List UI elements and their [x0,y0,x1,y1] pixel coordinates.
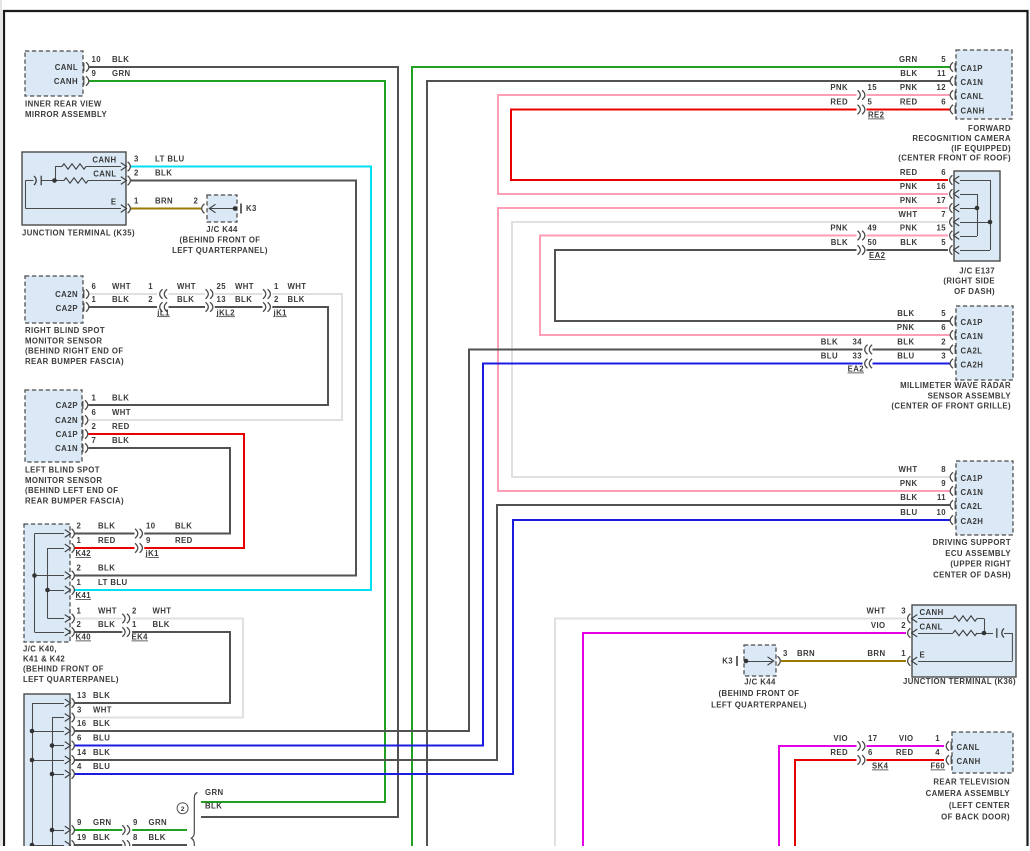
svg-text:15: 15 [937,224,947,233]
svg-text:REAR TELEVISION: REAR TELEVISION [933,778,1010,787]
svg-text:1: 1 [274,282,279,291]
svg-text:BLK: BLK [177,295,194,304]
svg-text:RED: RED [900,98,918,107]
svg-text:RIGHT BLIND SPOT: RIGHT BLIND SPOT [25,326,105,335]
svg-text:(UPPER RIGHT: (UPPER RIGHT [950,560,1011,569]
svg-text:1: 1 [92,295,97,304]
svg-text:BLU: BLU [821,352,838,361]
svg-text:CA2H: CA2H [961,517,984,526]
svg-text:GRN: GRN [93,818,112,827]
svg-text:14: 14 [77,748,87,757]
svg-text:9: 9 [941,479,946,488]
svg-text:1: 1 [148,282,153,291]
svg-text:17: 17 [868,734,877,743]
svg-text:BLK: BLK [112,436,129,445]
svg-text:WHT: WHT [177,282,196,291]
svg-text:E: E [920,651,926,660]
svg-text:3: 3 [77,706,82,715]
svg-text:SENSOR ASSEMBLY: SENSOR ASSEMBLY [928,391,1012,400]
svg-text:2: 2 [77,522,82,531]
svg-text:BLU: BLU [93,762,110,771]
svg-text:GRN: GRN [112,69,131,78]
svg-text:RED: RED [98,536,116,545]
svg-text:8: 8 [941,465,946,474]
svg-text:WHT: WHT [153,607,172,616]
svg-text:MILLIMETER WAVE RADAR: MILLIMETER WAVE RADAR [900,381,1011,390]
svg-text:CA2L: CA2L [961,347,983,356]
svg-text:CA1P: CA1P [961,64,983,73]
svg-text:4: 4 [77,762,82,771]
svg-text:J/C E137: J/C E137 [959,266,995,275]
svg-text:4: 4 [935,748,940,757]
svg-text:1: 1 [935,734,940,743]
svg-text:(BEHIND FRONT OF: (BEHIND FRONT OF [180,235,261,244]
svg-text:BLU: BLU [900,508,917,517]
svg-text:11: 11 [937,69,946,78]
svg-text:WHT: WHT [98,607,117,616]
svg-text:GRN: GRN [205,788,224,797]
svg-text:1: 1 [92,394,97,403]
svg-text:CA2N: CA2N [55,416,78,425]
svg-text:WHT: WHT [93,706,112,715]
svg-text:LT BLU: LT BLU [155,155,185,164]
svg-text:GRN: GRN [149,818,168,827]
svg-text:1: 1 [132,620,137,629]
svg-text:25: 25 [217,282,227,291]
svg-text:K42: K42 [76,549,92,558]
svg-text:OF BACK DOOR): OF BACK DOOR) [941,812,1010,821]
svg-text:RED: RED [900,168,918,177]
svg-text:ECU ASSEMBLY: ECU ASSEMBLY [945,549,1011,558]
svg-text:SK4: SK4 [872,762,889,771]
svg-text:17: 17 [937,196,946,205]
svg-text:CA1N: CA1N [961,78,984,87]
svg-text:2: 2 [181,806,185,813]
svg-text:FORWARD: FORWARD [968,124,1011,133]
svg-text:1: 1 [134,197,139,206]
svg-text:EK4: EK4 [132,633,149,642]
svg-text:7: 7 [92,436,97,445]
svg-text:RED: RED [112,422,130,431]
svg-text:RED: RED [896,748,914,757]
svg-text:EA2: EA2 [848,365,865,374]
svg-text:11: 11 [937,493,946,502]
svg-text:CANH: CANH [961,107,985,116]
svg-text:1: 1 [77,578,82,587]
svg-text:EA2: EA2 [869,251,886,260]
svg-text:REAR BUMPER FASCIA): REAR BUMPER FASCIA) [25,357,124,366]
svg-text:CANL: CANL [957,743,980,752]
svg-text:E: E [111,198,117,207]
svg-text:CA2H: CA2H [961,361,984,370]
svg-text:CANL: CANL [93,170,116,179]
svg-text:5: 5 [868,98,873,107]
svg-text:CA1N: CA1N [961,488,984,497]
svg-text:CANH: CANH [54,77,78,86]
svg-text:MONITOR SENSOR: MONITOR SENSOR [25,336,102,345]
svg-text:LEFT BLIND SPOT: LEFT BLIND SPOT [25,465,100,474]
svg-text:15: 15 [868,83,878,92]
svg-text:16: 16 [77,719,87,728]
svg-text:9: 9 [133,818,138,827]
svg-text:LT BLU: LT BLU [98,578,128,587]
svg-text:PNK: PNK [900,182,918,191]
svg-text:(BEHIND LEFT END OF: (BEHIND LEFT END OF [25,486,118,495]
svg-text:CANL: CANL [920,623,943,632]
svg-text:CA1N: CA1N [55,444,78,453]
svg-text:BLK: BLK [153,620,170,629]
svg-text:PNK: PNK [900,196,918,205]
svg-text:BLK: BLK [112,295,129,304]
svg-text:jK1: jK1 [145,549,160,558]
svg-text:6: 6 [941,323,946,332]
svg-text:WHT: WHT [288,282,307,291]
svg-text:BLK: BLK [205,802,222,811]
svg-text:BLK: BLK [112,394,129,403]
svg-text:2: 2 [132,607,137,616]
svg-text:CANH: CANH [92,156,116,165]
svg-text:RECOGNITION CAMERA: RECOGNITION CAMERA [912,134,1011,143]
svg-text:1: 1 [77,536,82,545]
svg-text:(BEHIND FRONT OF: (BEHIND FRONT OF [719,689,800,698]
svg-text:LEFT QUARTERPANEL): LEFT QUARTERPANEL) [23,675,119,684]
svg-text:jL1: jL1 [156,308,170,317]
svg-text:RED: RED [830,98,848,107]
svg-text:2: 2 [901,621,906,630]
svg-text:2: 2 [941,338,946,347]
svg-text:9: 9 [146,536,151,545]
svg-text:BLK: BLK [235,295,252,304]
svg-text:CANH: CANH [957,757,981,766]
svg-text:PNK: PNK [897,323,915,332]
svg-text:6: 6 [868,748,873,757]
svg-text:16: 16 [937,182,947,191]
svg-text:9: 9 [77,818,82,827]
svg-text:INNER REAR VIEW: INNER REAR VIEW [25,99,102,108]
svg-text:MIRROR ASSEMBLY: MIRROR ASSEMBLY [25,110,107,119]
svg-text:K41: K41 [76,591,92,600]
svg-text:BLK: BLK [98,564,115,573]
svg-text:BLU: BLU [897,352,914,361]
svg-text:12: 12 [937,83,947,92]
svg-text:K40: K40 [76,633,92,642]
svg-text:7: 7 [941,210,946,219]
svg-text:MONITOR SENSOR: MONITOR SENSOR [25,476,102,485]
svg-text:2: 2 [77,620,82,629]
svg-text:PNK: PNK [900,479,918,488]
svg-text:BRN: BRN [155,197,173,206]
svg-text:CANL: CANL [961,92,984,101]
svg-text:BRN: BRN [867,649,885,658]
svg-text:JUNCTION TERMINAL (K35): JUNCTION TERMINAL (K35) [22,229,135,238]
svg-text:BLK: BLK [93,691,110,700]
svg-text:33: 33 [853,352,863,361]
svg-text:BLK: BLK [93,719,110,728]
svg-text:WHT: WHT [899,210,918,219]
svg-text:BLK: BLK [831,238,848,247]
svg-text:5: 5 [941,309,946,318]
svg-text:J/C K40,: J/C K40, [23,644,57,653]
svg-text:3: 3 [941,352,946,361]
svg-text:WHT: WHT [867,607,886,616]
svg-text:2: 2 [92,422,97,431]
svg-text:2: 2 [134,169,139,178]
svg-text:PNK: PNK [900,224,918,233]
svg-text:PNK: PNK [900,83,918,92]
svg-text:CA1N: CA1N [961,332,984,341]
svg-text:REAR BUMPER FASCIA): REAR BUMPER FASCIA) [25,497,124,506]
svg-text:6: 6 [941,168,946,177]
svg-text:19: 19 [77,833,87,842]
svg-text:6: 6 [941,98,946,107]
svg-text:PNK: PNK [830,83,848,92]
svg-text:F60: F60 [931,762,946,771]
svg-text:(LEFT CENTER: (LEFT CENTER [949,801,1010,810]
svg-text:CENTER OF DASH): CENTER OF DASH) [933,570,1011,579]
svg-text:WHT: WHT [112,282,131,291]
svg-text:K3: K3 [722,657,733,666]
svg-text:CAMERA ASSEMBLY: CAMERA ASSEMBLY [926,789,1011,798]
svg-text:DRIVING SUPPORT: DRIVING SUPPORT [933,538,1011,547]
svg-text:J/C K44: J/C K44 [744,678,776,687]
svg-text:(CENTER OF FRONT GRILLE): (CENTER OF FRONT GRILLE) [891,402,1011,411]
svg-text:3: 3 [783,649,788,658]
svg-text:JUNCTION TERMINAL (K36): JUNCTION TERMINAL (K36) [903,677,1016,686]
svg-text:K3: K3 [246,204,257,213]
svg-text:WHT: WHT [235,282,254,291]
svg-text:9: 9 [92,69,97,78]
svg-text:BLK: BLK [288,295,305,304]
svg-text:CA2N: CA2N [55,290,78,299]
svg-text:RED: RED [830,748,848,757]
svg-text:BLK: BLK [897,338,914,347]
svg-text:1: 1 [77,607,82,616]
svg-text:(IF EQUIPPED): (IF EQUIPPED) [951,144,1011,153]
svg-text:BLK: BLK [175,522,192,531]
svg-text:BRN: BRN [797,649,815,658]
svg-text:CANL: CANL [55,63,78,72]
svg-text:34: 34 [853,338,863,347]
svg-text:(BEHIND RIGHT END OF: (BEHIND RIGHT END OF [25,347,124,356]
svg-text:CANH: CANH [920,608,944,617]
svg-text:BLK: BLK [900,69,917,78]
svg-text:BLK: BLK [821,338,838,347]
svg-text:(CENTER FRONT OF ROOF): (CENTER FRONT OF ROOF) [898,154,1011,163]
svg-text:CA1P: CA1P [56,430,78,439]
svg-text:WHT: WHT [899,465,918,474]
svg-text:10: 10 [92,55,102,64]
svg-text:BLK: BLK [98,620,115,629]
svg-text:10: 10 [146,522,156,531]
svg-text:BLK: BLK [93,748,110,757]
svg-text:J/C K44: J/C K44 [206,225,238,234]
svg-text:RED: RED [175,536,193,545]
svg-text:WHT: WHT [112,408,131,417]
svg-text:6: 6 [77,734,82,743]
svg-text:BLK: BLK [155,169,172,178]
svg-text:CA2P: CA2P [56,304,78,313]
svg-text:VIO: VIO [899,734,914,743]
svg-text:VIO: VIO [871,621,886,630]
svg-text:CA1P: CA1P [961,318,983,327]
svg-text:6: 6 [92,408,97,417]
svg-text:LEFT QUARTERPANEL): LEFT QUARTERPANEL) [711,701,807,710]
svg-text:BLK: BLK [900,238,917,247]
svg-text:CA2L: CA2L [961,502,983,511]
svg-text:K41 & K42: K41 & K42 [23,655,65,664]
svg-text:2: 2 [148,295,153,304]
svg-text:jKL2: jKL2 [216,308,236,317]
svg-text:GRN: GRN [899,55,918,64]
svg-text:5: 5 [941,238,946,247]
svg-text:13: 13 [77,691,87,700]
svg-text:2: 2 [77,564,82,573]
svg-text:6: 6 [92,282,97,291]
svg-text:PNK: PNK [830,224,848,233]
svg-text:BLK: BLK [897,309,914,318]
svg-text:(RIGHT SIDE: (RIGHT SIDE [943,277,995,286]
svg-text:(BEHIND FRONT OF: (BEHIND FRONT OF [23,665,104,674]
svg-text:2: 2 [194,197,199,206]
svg-text:BLK: BLK [112,55,129,64]
svg-text:1: 1 [901,649,906,658]
svg-text:10: 10 [937,508,947,517]
svg-text:RE2: RE2 [868,111,885,120]
svg-text:3: 3 [134,155,139,164]
svg-text:BLK: BLK [149,833,166,842]
svg-text:BLU: BLU [93,734,110,743]
svg-text:50: 50 [868,238,878,247]
svg-text:49: 49 [868,224,878,233]
svg-text:2: 2 [274,295,279,304]
svg-text:LEFT QUARTERPANEL): LEFT QUARTERPANEL) [172,246,268,255]
svg-text:CA2P: CA2P [56,401,78,410]
svg-text:CA1P: CA1P [961,474,983,483]
svg-text:VIO: VIO [833,734,848,743]
svg-text:BLK: BLK [98,522,115,531]
svg-text:BLK: BLK [900,493,917,502]
svg-text:BLK: BLK [93,833,110,842]
svg-text:5: 5 [941,55,946,64]
svg-text:3: 3 [901,607,906,616]
svg-text:OF DASH): OF DASH) [954,287,995,296]
svg-text:8: 8 [133,833,138,842]
svg-text:13: 13 [217,295,227,304]
svg-text:jK1: jK1 [273,308,288,317]
